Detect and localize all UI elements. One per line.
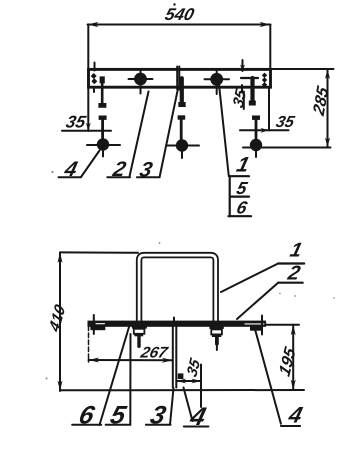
svg-text:6: 6 (235, 198, 250, 218)
leader 2 (top view) (130, 92, 149, 177)
clip at right (item 1 zone) (241, 77, 258, 79)
top extension to U-bolt (60, 251, 138, 253)
tick below bar right (241, 85, 243, 92)
left nut stack (items 5,6) (132, 326, 147, 329)
left lower bolt cap (99, 116, 107, 120)
bolt circle left-low (97, 138, 109, 150)
leader 1 (bottom view) (221, 264, 278, 293)
U-bolt (items 1): outer stroke (139, 255, 216, 321)
svg-text:35: 35 (274, 113, 297, 131)
left clamp block (90, 325, 105, 330)
label 4 (bottom middle) (184, 388, 193, 422)
label 4 (bottom right) (255, 330, 281, 423)
dim 35 right line (240, 129, 289, 131)
svg-text:2: 2 (285, 263, 303, 285)
dim 195 line (292, 325, 294, 390)
extension line left (x=88) (87, 25, 89, 131)
dimension 540 line (88, 24, 271, 26)
strap foot block (178, 373, 184, 379)
svg-text:5: 5 (235, 178, 251, 198)
label 6 (bottom) (100, 326, 130, 425)
bolt circle B2 (210, 73, 223, 86)
tick above plate left end (93, 315, 95, 334)
svg-text:540: 540 (163, 4, 197, 24)
svg-text:267: 267 (138, 345, 170, 362)
right bolt lower part (252, 116, 260, 120)
paper speckles (46, 171, 335, 380)
dimension 285 line (327, 69, 329, 148)
stack left edge (229, 176, 231, 216)
dim 35 (bottom) extension (200, 365, 202, 408)
right clamp block (250, 326, 261, 331)
U-bolt white core (139, 255, 216, 321)
extension line right (x=270) (269, 25, 271, 68)
tick below bar at left (93, 88, 95, 93)
tick through plate right end (261, 316, 263, 335)
baseline (60, 389, 304, 391)
tick above bar at left (94, 63, 96, 71)
bolt circle right-low (250, 139, 262, 151)
plate white slits (scan streaks) (96, 323, 105, 325)
dot above 540 (173, 3, 175, 5)
label 5 (bottom) (129, 334, 131, 425)
leader 3 (top view) (160, 90, 178, 178)
svg-text:1: 1 (288, 240, 305, 262)
extension top for 285 (271, 68, 334, 70)
plate (bottom view, item 2) (88, 321, 267, 327)
tick above bar right (x=242) (242, 60, 244, 71)
plate bar (top view) (89, 69, 271, 87)
leader 4 (top view) (81, 151, 100, 178)
centre bolt upper part (180, 78, 184, 102)
svg-text:285: 285 (309, 83, 332, 119)
dim 195 extension (266, 324, 299, 326)
rivet diamonds left end (91, 73, 98, 84)
bolt left (top view, item 2 zone) (100, 76, 105, 83)
extension bottom for 285 (long line through circle) (243, 147, 331, 149)
dim 267 line (89, 359, 173, 361)
svg-text:1: 1 (234, 153, 252, 177)
centre strap (bottom view, item 3) (173, 318, 175, 321)
leader 2 (bottom view) (237, 283, 278, 319)
svg-text:195: 195 (275, 343, 299, 379)
svg-text:4: 4 (285, 402, 305, 428)
centre bolt lower part (178, 115, 186, 119)
left lower bolt shaft (101, 119, 104, 139)
label 3 (bottom) (170, 388, 174, 425)
right nut stack (209, 326, 223, 329)
centre strap (top view, item 3) (176, 67, 178, 90)
bolt circle B1 (134, 73, 147, 86)
rivet diamonds right end (262, 73, 267, 88)
dim 267 extension (left, dashed) (88, 326, 90, 362)
dim 35 (bottom) line (177, 380, 202, 382)
bolt circle below centre (176, 139, 188, 151)
leader to stack 1/5/6 (219, 85, 229, 177)
dim 35 left line (62, 130, 111, 132)
svg-text:35: 35 (64, 112, 88, 132)
svg-text:410: 410 (47, 302, 69, 336)
dimension 410 line (59, 252, 61, 391)
svg-text:35: 35 (230, 87, 249, 111)
